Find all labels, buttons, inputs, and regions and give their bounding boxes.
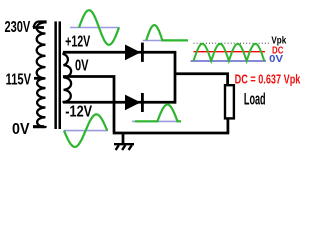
svg-text:Load: Load (244, 91, 266, 109)
svg-text:0V: 0V (269, 53, 283, 65)
svg-text:115V: 115V (6, 71, 32, 88)
svg-text:0V: 0V (12, 121, 30, 138)
svg-text:Vpk: Vpk (271, 34, 286, 46)
svg-text:0V: 0V (75, 57, 89, 74)
svg-text:+12V: +12V (65, 34, 90, 51)
svg-text:DC = 0.637 Vpk: DC = 0.637 Vpk (235, 72, 301, 87)
svg-text:-12V: -12V (65, 104, 92, 121)
svg-text:230V: 230V (5, 19, 31, 36)
